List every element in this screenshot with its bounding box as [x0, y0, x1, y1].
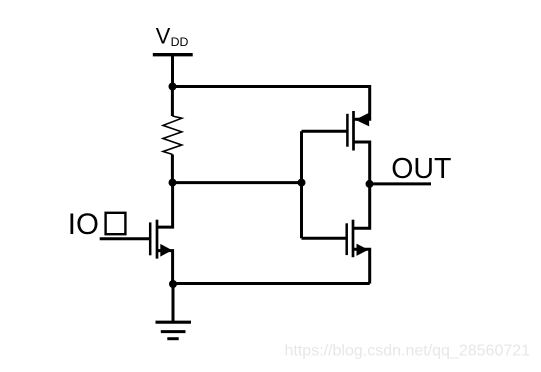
wire bottom rail [173, 282, 370, 285]
node A (VDD rail junction) [169, 83, 177, 91]
node C (gate bus junction) [298, 179, 306, 187]
wire VDD bar to node A [171, 55, 174, 88]
wire node B to node C [173, 181, 302, 184]
transistor Q1 (NMOS, left) [150, 183, 172, 285]
svg-text:IO: IO [68, 208, 99, 241]
wire gate bus vertical [300, 131, 303, 238]
svg-text:https://blog.csdn.net/qq_28560: https://blog.csdn.net/qq_28560721 [285, 343, 531, 360]
label OUT [391, 153, 451, 185]
resistor R1 [163, 87, 182, 185]
node OUT [366, 180, 374, 188]
IO pad square [106, 213, 126, 234]
svg-text:V: V [156, 24, 171, 49]
label IO [68, 208, 99, 241]
wire gate lead to PMOS Q2 [302, 130, 347, 133]
svg-text:OUT: OUT [391, 153, 451, 185]
watermark [285, 343, 531, 360]
wire gate lead of Q1 [100, 237, 150, 240]
wire gate lead to NMOS Q3 [302, 237, 346, 240]
transistor Q3 (NMOS, bottom right) [347, 184, 370, 284]
node B (resistor bottom junction) [169, 179, 177, 187]
wire OUT stub [370, 182, 432, 185]
ground [156, 322, 192, 339]
power symbol VDD [153, 24, 193, 55]
node D (ground junction) [169, 280, 177, 288]
svg-text:DD: DD [171, 35, 189, 49]
wire node D to ground [172, 284, 175, 322]
transistor Q2 (PMOS, top right) [347, 85, 369, 184]
wire top rail node A to PMOS source corner [173, 85, 370, 88]
